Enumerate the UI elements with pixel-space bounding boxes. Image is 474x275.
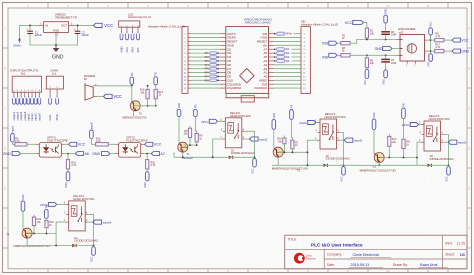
netflag VCC encoder pullup flag — [353, 20, 364, 24]
wire R9 to base — [196, 142, 198, 145]
svg-text:GND: GND — [383, 79, 386, 85]
wire relay1 coil to transistor — [213, 139, 223, 157]
opto1 pin1 stub — [36, 143, 39, 145]
relay RELAY2 switch — [329, 125, 334, 141]
junction relay1 VCC rail — [254, 156, 256, 158]
svg-text:HK22F-DC5V-SDG: HK22F-DC5V-SDG — [230, 115, 251, 118]
svg-text:ARDUINO_NANO: ARDUINO_NANO — [245, 21, 272, 25]
junction T5 base R18 — [147, 105, 149, 107]
opto2 pin2 stub — [115, 153, 118, 155]
net pill GND collector T3 — [372, 119, 376, 130]
encoder right pin bottom stub — [425, 50, 428, 52]
svg-text:1/1: 1/1 — [460, 253, 465, 257]
net pill VCC relay2 — [342, 167, 346, 176]
junction lineB C9 — [385, 54, 387, 56]
junction buzzer node — [131, 85, 133, 87]
svg-text:Kaan Unal: Kaan Unal — [420, 263, 438, 267]
svg-text:GND: GND — [178, 103, 181, 109]
T5 base wire — [134, 105, 156, 107]
relay RELAY4 body — [69, 201, 86, 231]
svg-text:SDA: SDA — [131, 47, 135, 53]
wire PI5 pill down — [291, 119, 294, 140]
encoder knob symbol — [407, 44, 416, 53]
svg-text:output3: output3 — [19, 111, 23, 120]
wire relay3 to output flag — [444, 141, 449, 143]
wire buzzer pin2 to VCC flag — [97, 95, 104, 97]
svg-text:IP8: IP8 — [205, 78, 210, 82]
wire PI4 pill down — [45, 218, 47, 221]
svg-text:Date:: Date: — [327, 263, 335, 267]
netflag 24Vin relay1 flag — [209, 119, 217, 123]
arduino nano body — [226, 27, 269, 94]
nano left pin names — [227, 32, 242, 90]
junction T1 base b — [196, 144, 198, 146]
wire R1 to encoder A — [350, 40, 396, 44]
svg-text:D13/SCK: D13/SCK — [254, 86, 267, 90]
opto1 phototransistor — [56, 144, 59, 153]
net pill GND collector T2 — [272, 119, 276, 129]
buzzer pin1 stub — [93, 85, 97, 87]
svg-text:HK22F-DC5V-SDG: HK22F-DC5V-SDG — [73, 198, 94, 201]
wire 24Vin flag to relay4 — [57, 203, 66, 205]
resistor R4 wires — [366, 55, 368, 69]
svg-text:220uF: 220uF — [82, 33, 90, 37]
opto1 pin4 stub — [62, 143, 65, 145]
relay RELAY1 switch — [234, 123, 239, 139]
relay RELAY2 body — [320, 119, 337, 149]
transistor T2 body — [273, 147, 283, 157]
regulator U1 body — [44, 22, 69, 33]
wire T4 collector — [22, 211, 24, 229]
netflag GND opto1 flag — [12, 152, 20, 156]
wire R12 to base — [388, 146, 390, 157]
junction T5 base R19 — [155, 105, 157, 107]
transistor T1 body — [178, 142, 188, 152]
capacitor C8 leads — [385, 23, 387, 39]
svg-text:VCC: VCC — [364, 79, 367, 84]
svg-text:ENCODER: ENCODER — [399, 27, 416, 31]
wire T3 collector — [373, 130, 375, 154]
wire T4 emitter — [26, 238, 28, 245]
svg-text:transistor: transistor — [182, 156, 193, 160]
junction buzzerwire R18 — [147, 85, 149, 87]
wire C2 lower lead — [56, 34, 78, 45]
junction T4 base b — [46, 233, 48, 235]
netflag GND encoder common flag — [383, 47, 392, 51]
svg-text:4.7k: 4.7k — [71, 164, 76, 167]
svg-text:24Vin: 24Vin — [299, 121, 307, 125]
svg-text:PC817TX0CSP9F: PC817TX0CSP9F — [47, 139, 69, 142]
relay RELAY1 coil — [228, 123, 234, 134]
svg-text:2.7k: 2.7k — [15, 140, 20, 143]
net pill input2 input opto2 — [90, 130, 94, 139]
svg-text:GND: GND — [52, 55, 64, 61]
svg-text:VCC: VCC — [78, 143, 86, 147]
svg-text:B: B — [4, 67, 6, 71]
wire opto1 pin4 to VCC — [65, 143, 69, 145]
svg-text:GND: GND — [373, 112, 376, 118]
svg-text:input1: input1 — [11, 125, 14, 132]
svg-text:PI0: PI0 — [428, 62, 431, 66]
junction T4 base a — [33, 233, 35, 235]
netflag VCC regulator output — [94, 23, 103, 27]
wire 24Vin flag to relay3 — [419, 124, 422, 126]
svg-text:Company:: Company: — [327, 253, 342, 257]
resistor R3 body — [341, 54, 350, 57]
svg-text:VCC: VCC — [345, 21, 353, 25]
24VIN connector cups — [49, 95, 59, 104]
svg-text:A: A — [468, 27, 470, 31]
T4 base wire — [28, 233, 56, 235]
svg-text:2x1: 2x1 — [52, 72, 57, 76]
svg-text:GND: GND — [461, 50, 469, 54]
resistor R20 body — [146, 160, 149, 169]
svg-text:11: 11 — [426, 269, 429, 273]
relay RELAY1 pin3 stub — [223, 130, 226, 132]
svg-text:MMBTA062LT1G0(SCT-ND: MMBTA062LT1G0(SCT-ND — [122, 116, 146, 119]
wire R16 to GND pill — [67, 169, 69, 172]
netflag GND opto2 flag — [102, 152, 110, 156]
capacitor C1 — [26, 28, 33, 33]
wire R8 to base — [189, 138, 191, 145]
svg-text:4.7k: 4.7k — [435, 35, 440, 38]
opto1 body — [39, 143, 61, 158]
svg-text:24Vin: 24Vin — [285, 32, 292, 36]
wire opto1 output to R down — [67, 154, 69, 160]
svg-text:IN3: IN3 — [285, 55, 290, 59]
junction regulator IN node — [29, 25, 31, 27]
wire VCC pill drop relay3 — [448, 165, 450, 166]
wire encoder outputs vertical — [430, 35, 432, 54]
svg-text:Header-Male-2.54_1x15: Header-Male-2.54_1x15 — [148, 25, 186, 28]
capacitor C8 — [381, 32, 390, 35]
wire R to opto1 pin1 — [27, 143, 36, 145]
svg-text:2019-09-11: 2019-09-11 — [351, 263, 370, 267]
wire B to R17 — [431, 50, 435, 52]
T5 emitter stub — [133, 111, 135, 117]
opto1 pin3 stub — [62, 153, 65, 155]
nano usb connector rect — [241, 96, 254, 102]
svg-text:IP1: IP1 — [205, 51, 210, 55]
company logo — [294, 253, 317, 264]
wire buzzer pin1 to T5 — [97, 85, 132, 87]
wire C1 branch — [29, 25, 31, 31]
svg-text:E: E — [468, 187, 470, 191]
wire R8 top stub — [189, 126, 191, 129]
wires nano to right header — [274, 34, 301, 88]
wire C2 branch — [77, 25, 79, 31]
wire relay2 pin4 to VCC rail — [340, 133, 344, 166]
svg-text:24Vin: 24Vin — [13, 43, 21, 47]
wire T1 emitter — [182, 152, 184, 157]
drawnby underline — [419, 266, 449, 268]
svg-text:GND: GND — [144, 182, 147, 188]
wire input pill to R opto1 — [12, 142, 14, 144]
svg-text:TITLE:: TITLE: — [288, 238, 298, 242]
svg-text:GND: GND — [375, 47, 383, 51]
regulator pin 1 — [38, 24, 44, 26]
date underline — [349, 266, 384, 268]
svg-text:Drawn By:: Drawn By: — [393, 263, 408, 267]
svg-text:B: B — [468, 67, 470, 71]
svg-text:PLC I&O User Interface: PLC I&O User Interface — [311, 243, 363, 248]
opto2 pin3 stub — [141, 153, 144, 155]
svg-text:DIODE-DC5/1HAC: DIODE-DC5/1HAC — [326, 158, 350, 161]
junction T2 base a — [284, 151, 286, 153]
svg-text:VCC: VCC — [90, 256, 93, 261]
junction relay4 VCC rail — [93, 245, 95, 247]
wire R10 top stub — [283, 136, 285, 139]
svg-text:4.7k: 4.7k — [151, 164, 156, 167]
relay RELAY2 pin1 stub — [317, 139, 320, 141]
encoder pin A stub — [396, 39, 400, 41]
wire regulator OUT to VCC — [75, 24, 94, 26]
wire opto2 pin4 to VCC — [143, 143, 146, 145]
net pill 24Vin row1 — [274, 32, 292, 36]
wire relay2 coil to transistor — [307, 140, 317, 165]
svg-text:A: A — [4, 27, 6, 31]
encoder right pin top stub — [425, 39, 428, 41]
relay RELAY2 pin5 stub — [317, 122, 320, 124]
net pill PI1 above buzzer wire — [130, 77, 134, 84]
resistor R12 body — [388, 136, 391, 146]
svg-text:DIODE-DC5/1HAC: DIODE-DC5/1HAC — [74, 240, 98, 243]
net pill PI3 T1 — [194, 109, 198, 116]
encoder body — [400, 35, 425, 62]
net pill PI2 above R19 — [154, 77, 158, 85]
relay RELAY4 switch — [78, 206, 83, 222]
24VIN net labels rotated — [48, 113, 59, 120]
svg-text:input3: input3 — [34, 113, 38, 121]
svg-text:D: D — [4, 147, 6, 151]
svg-text:IP4: IP4 — [205, 63, 210, 67]
resistor R10 body — [283, 138, 286, 144]
svg-text:A7: A7 — [160, 152, 164, 156]
net pill input1 input opto1 — [11, 134, 15, 143]
svg-text:104F: 104F — [391, 34, 397, 37]
junction relay2 coil base — [307, 151, 309, 153]
right header pin numbers — [303, 34, 306, 90]
wire relay1 bottom left up — [173, 152, 175, 157]
nano logo diamond — [240, 69, 254, 83]
svg-text:SCL: SCL — [136, 47, 140, 53]
svg-text:GND: GND — [48, 115, 52, 121]
wire relay2 to output flag — [340, 139, 345, 141]
resistor R2 body — [365, 28, 368, 38]
svg-text:IN6: IN6 — [322, 55, 328, 59]
opto2 pin1 stub — [115, 143, 118, 145]
wire 24Vin flag to relay2 — [316, 122, 317, 124]
diode D2 symbol — [323, 164, 327, 167]
resistor R18 body — [146, 89, 149, 98]
regulator pin 3 GND — [55, 32, 57, 36]
svg-text:input2: input2 — [30, 113, 34, 121]
relay RELAY3 body — [424, 121, 441, 151]
resistor R6 body — [435, 38, 444, 41]
wire C1 lower lead — [30, 34, 56, 45]
buzzer pin2 stub — [93, 95, 97, 97]
svg-text:GND: GND — [92, 152, 100, 156]
svg-text:BUZZER: BUZZER — [84, 74, 95, 78]
resistor R14 body — [32, 217, 35, 226]
net pill VCC relay4 — [92, 247, 96, 256]
left header pin stubs — [188, 34, 191, 88]
resistor R19 body — [154, 89, 157, 98]
wire R2 to lineA — [366, 38, 368, 40]
svg-text:Circle: Circle — [306, 254, 312, 257]
nano usb bracket — [226, 93, 269, 97]
junction opto1 output — [67, 153, 69, 155]
svg-text:Header-Female-2.54_1x4: Header-Female-2.54_1x4 — [128, 16, 152, 19]
wire GND flag to encoder C — [392, 48, 400, 50]
wire T5 collector — [131, 86, 133, 102]
svg-text:OUT: OUT — [61, 24, 67, 28]
netflag 24Vin relay2 flag — [308, 121, 316, 125]
wire regulator GND down — [55, 36, 57, 48]
svg-text:10: 10 — [386, 4, 390, 8]
relay RELAY1 pin4 stub — [242, 130, 245, 132]
opto1 pin2 stub — [36, 153, 39, 155]
netflag VCC opto2 flag — [145, 142, 153, 146]
svg-text:PC817TX0CSP9F: PC817TX0CSP9F — [126, 139, 148, 142]
wire PI6 pill down — [403, 119, 405, 140]
wire R15 to base — [46, 228, 48, 234]
relay RELAY4 pin3 stub — [66, 213, 69, 215]
junction encoder B node — [430, 50, 432, 52]
netflag 24Vin relay4 flag — [48, 202, 56, 206]
company underline — [351, 256, 392, 258]
netflag input1 flag — [250, 137, 259, 141]
wire R17 to GND flag — [444, 50, 452, 52]
svg-text:24Vin: 24Vin — [55, 113, 59, 120]
relay RELAY2 coil — [323, 124, 329, 135]
net pill VCC relay3 — [447, 167, 451, 176]
svg-text:GND: GND — [273, 113, 276, 119]
encoder bottom stubs — [406, 61, 416, 67]
wire A to R6 — [431, 39, 435, 41]
svg-text:VCC: VCC — [154, 143, 162, 147]
resistor R4 body — [365, 58, 368, 68]
relay RELAY3 coil — [427, 126, 433, 137]
wire T3 emitter — [378, 163, 380, 166]
svg-text:220uF: 220uF — [35, 33, 43, 37]
junction relay3 VCC rail — [448, 164, 450, 166]
svg-text:IP2: IP2 — [205, 55, 210, 59]
svg-text:IN5: IN5 — [322, 41, 328, 45]
svg-text:MMBTA062LP1G0(SCT-ND: MMBTA062LP1G0(SCT-ND — [272, 167, 308, 170]
left header HE1 body — [182, 27, 188, 94]
resistor R15 body — [45, 221, 48, 228]
opto2 phototransistor — [135, 144, 138, 153]
opto2 body — [119, 143, 141, 158]
wire PI3 pill down — [195, 117, 196, 134]
resistor R9 body — [195, 134, 198, 142]
netflag VCC buzzer — [104, 94, 113, 98]
svg-text:HK22F-DC5V-SDG: HK22F-DC5V-SDG — [429, 118, 450, 121]
svg-text:GND: GND — [22, 194, 25, 200]
resistor R19 wires — [155, 85, 157, 106]
relay RELAY3 pin4 stub — [441, 134, 444, 136]
junction relay3 coil base — [416, 157, 418, 159]
svg-text:v1.25: v1.25 — [457, 242, 465, 246]
left header pin numbers — [184, 34, 187, 90]
net pill PI5 T2 — [290, 110, 294, 120]
svg-text:VCC: VCC — [104, 23, 113, 28]
wire R14 top stub — [33, 215, 35, 218]
junction regulator GND node — [55, 44, 57, 46]
net pill GND collector T4 — [21, 201, 25, 211]
right header HE2 body — [301, 27, 310, 94]
buzzer symbol — [85, 83, 97, 100]
svg-text:IN4: IN4 — [285, 59, 290, 63]
wire opto2 pin3 node — [144, 153, 151, 155]
svg-text:output4: output4 — [23, 111, 27, 120]
net pill GND below C9 — [384, 70, 388, 78]
diode D4 symbol — [72, 244, 76, 247]
LCD header body — [119, 21, 140, 27]
svg-text:Sheet:: Sheet: — [445, 253, 455, 257]
nano right pin stubs — [269, 34, 275, 88]
svg-text:2.7k: 2.7k — [96, 140, 101, 143]
svg-text:DIODE-DC5/1HAC: DIODE-DC5/1HAC — [231, 152, 255, 155]
wire relay4 coil to transistor — [56, 222, 66, 245]
relay RELAY3 pin2 stub — [441, 141, 444, 143]
svg-text:E: E — [4, 187, 6, 191]
opto1 photo arrows — [51, 148, 55, 152]
svg-text:VCC: VCC — [445, 176, 448, 181]
svg-text:78M05ABDT-TR: 78M05ABDT-TR — [55, 16, 77, 20]
svg-text:output2: output2 — [16, 111, 20, 120]
title block frame — [285, 235, 467, 269]
relay RELAY1 pin1 stub — [222, 138, 225, 140]
svg-text:D12/MISO: D12/MISO — [227, 86, 242, 90]
svg-text:104F: 104F — [391, 62, 397, 65]
resistor R15 body — [96, 143, 109, 146]
svg-text:VCC: VCC — [113, 94, 122, 99]
svg-text:IP5: IP5 — [205, 67, 210, 71]
svg-text:input4: input4 — [103, 221, 112, 225]
junction regulator OUT node — [77, 25, 79, 27]
net pill PI0 below encoder outputs — [429, 54, 433, 62]
relay RELAY1 pin5 stub — [222, 120, 225, 122]
opto2 photo arrows — [130, 148, 134, 152]
wire T1 collector — [178, 117, 180, 143]
transistor T5 — [130, 101, 140, 111]
24VIN header pins — [50, 87, 59, 95]
wire right bottom common — [272, 164, 449, 166]
net pill GND below R16 — [66, 172, 70, 181]
svg-text:F: F — [4, 227, 6, 231]
svg-text:GND: GND — [53, 29, 59, 33]
relay RELAY4 coil — [71, 206, 77, 217]
svg-text:PI1: PI1 — [131, 72, 134, 76]
wire encB to vert — [428, 50, 431, 52]
relay RELAY3 pin3 stub — [422, 134, 425, 136]
junction T2 base b — [292, 151, 294, 153]
svg-text:IN2: IN2 — [285, 51, 290, 55]
junction opto2 output — [146, 153, 148, 155]
resistor R5 body — [15, 143, 27, 146]
wire GND flag to opto1 pin2 — [21, 153, 37, 155]
wire R14 to base — [33, 226, 35, 234]
svg-text:VCC: VCC — [340, 176, 343, 181]
LCD connector cups — [120, 31, 139, 40]
wire T2 collector — [273, 129, 275, 148]
junction T1 base a — [189, 144, 191, 146]
relay RELAY2 pin2 stub — [337, 139, 340, 141]
net pills IP1-IP8 — [205, 51, 219, 82]
svg-text:DIODE-DC5/1HAC: DIODE-DC5/1HAC — [430, 158, 454, 161]
